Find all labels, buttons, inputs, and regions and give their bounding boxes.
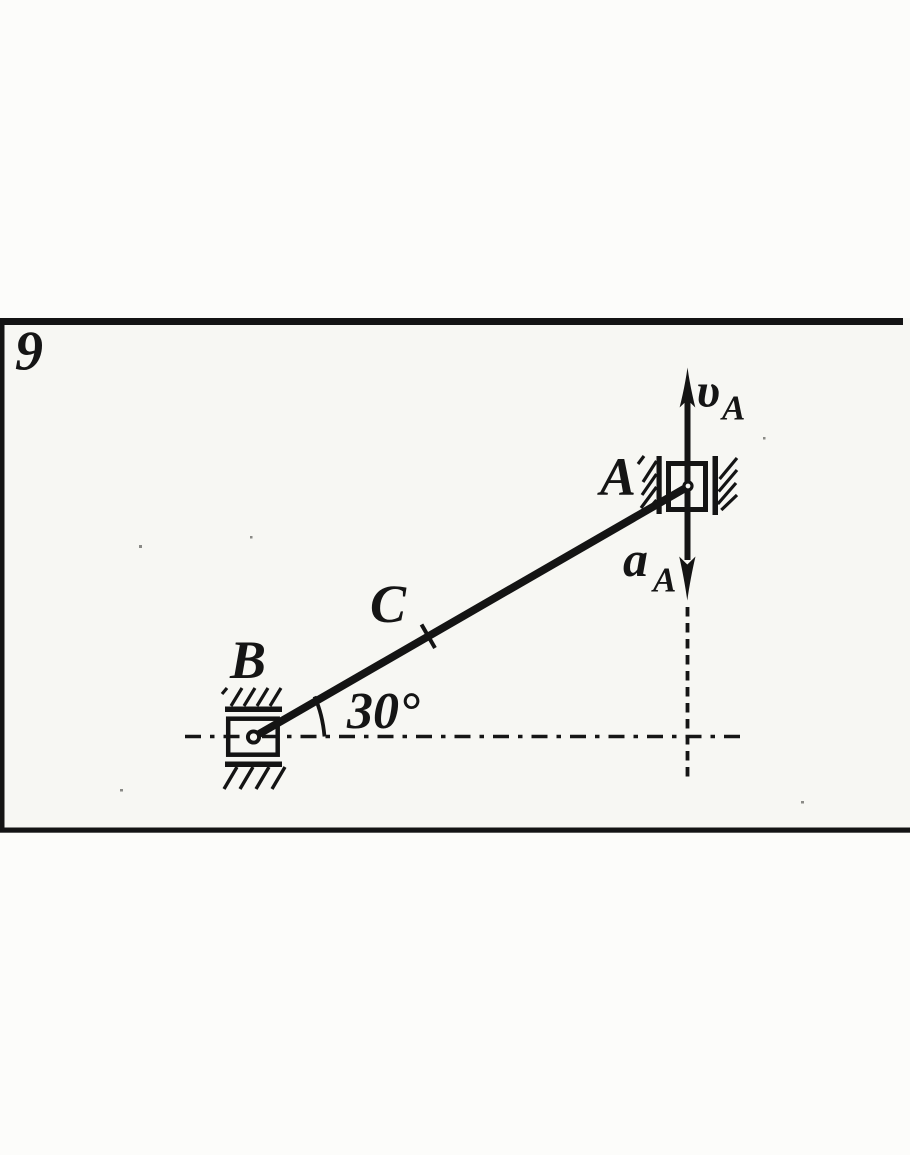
v_A arrow shaft and a_A shaft (vertical line through A) [685, 395, 691, 560]
hatching right of A right rail [718, 458, 737, 510]
pin at B [248, 731, 259, 742]
svg-text:A: A [597, 447, 636, 507]
hatching left of A left rail [638, 456, 657, 512]
slider B top guide rail [225, 707, 282, 713]
a_A arrowhead (down) [679, 557, 695, 601]
svg-text:B: B [229, 630, 266, 690]
svg-text:A: A [651, 561, 676, 600]
rod AB [252, 486, 689, 738]
angle arc at B [315, 697, 325, 737]
slider A right rail [713, 456, 719, 515]
hatching below B bottom rail [224, 767, 285, 789]
slider B bottom guide rail [225, 762, 282, 768]
frame left border [0, 318, 5, 832]
svg-text:9: 9 [15, 321, 43, 383]
svg-text:a: a [623, 531, 648, 587]
frame interior [0, 318, 910, 832]
pin at A [684, 482, 692, 490]
tick mark at C [422, 625, 436, 649]
hatching above B top rail [222, 688, 281, 706]
slider A box [669, 464, 706, 510]
slider A left rail [657, 456, 662, 514]
svg-text:30°: 30° [346, 683, 420, 740]
horizontal dash-dot centerline through B [185, 735, 741, 739]
v_A arrowhead (up) [680, 368, 696, 408]
vertical dashed line below A [686, 607, 690, 779]
slider B box [228, 719, 278, 755]
svg-text:A: A [720, 389, 745, 428]
frame bottom border [0, 828, 910, 833]
paper specks [120, 437, 804, 804]
svg-text:C: C [370, 574, 407, 634]
frame top border [0, 318, 903, 325]
svg-text:υ: υ [697, 365, 721, 418]
